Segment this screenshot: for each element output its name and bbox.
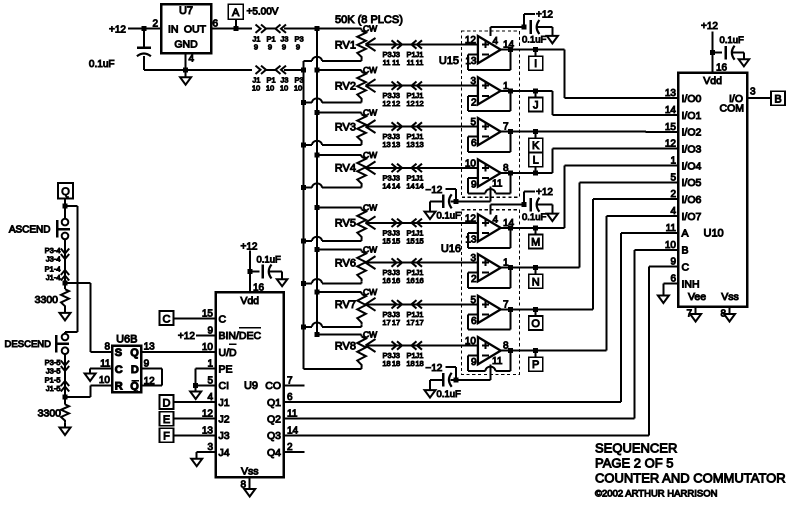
- label CW (RV5): [363, 203, 377, 213]
- label CW (RV8): [363, 330, 377, 340]
- wiper arrow RV4: [366, 161, 376, 174]
- pin 16 label (U10 Vdd): [716, 62, 728, 73]
- svg-text:18: 18: [382, 359, 390, 368]
- label IN: [168, 23, 179, 35]
- pin name J4: [219, 447, 230, 459]
- label Vdd (U10): [703, 75, 722, 87]
- svg-text:L: L: [533, 155, 539, 167]
- wire pin 4 to +12 rail: [490, 27, 492, 36]
- dashed box U16: [461, 210, 519, 375]
- svg-text:C: C: [682, 261, 690, 273]
- pin 11 label (U16 V-): [492, 356, 503, 367]
- label 0.1uF (U9): [257, 255, 281, 266]
- wiper arrow RV3: [366, 120, 376, 133]
- feedback wire U16a: [468, 228, 510, 248]
- pin label 9 (-in): [471, 357, 477, 368]
- label 0.1uF (U16): [522, 212, 546, 223]
- wire cap to ground (U16 V-): [430, 380, 443, 390]
- wire RV7 bottom to ground bus (hop over +5V bus): [303, 322, 361, 326]
- svg-text:PAGE 2 OF 5: PAGE 2 OF 5: [595, 456, 674, 471]
- labels J1 P1 J3 P3 row 10: [253, 76, 304, 85]
- ground (U10 INH): [658, 296, 669, 304]
- wire node D to U9 J1: [174, 401, 216, 403]
- pin number 11 (U10 A): [666, 223, 677, 234]
- labels P3 J3 P1 J1 ch4: [383, 173, 424, 182]
- pin 2 label (U9 Q4): [287, 442, 293, 453]
- pin 7 label (U9 CO): [287, 375, 293, 386]
- svg-text:PE: PE: [219, 364, 233, 376]
- pin label 14 (out): [503, 40, 515, 51]
- pin 4 label (U15 V+): [493, 36, 499, 47]
- wire RV2 wiper to buffer: [366, 85, 478, 87]
- junction output stub: [533, 265, 538, 270]
- potentiometer RV5 body: [357, 208, 366, 242]
- svg-text:C: C: [163, 313, 171, 325]
- connector chevrons P3-5/J3-5 (down): [61, 361, 69, 372]
- node L box: [529, 153, 543, 167]
- pin label 3 (+in): [470, 76, 476, 87]
- pin 8 label (U6B S): [104, 342, 110, 353]
- power label +12 (U7 input): [109, 24, 126, 35]
- junction output stub: [533, 88, 538, 93]
- power label +12 (U15): [536, 10, 553, 21]
- connector chevrons P1/J1 ch2 (left): [412, 82, 423, 90]
- pin label 13 (-in): [465, 234, 477, 245]
- wire node E to U9 J2: [174, 418, 216, 420]
- svg-text:RV2: RV2: [335, 81, 356, 93]
- pin label 1 (out): [503, 258, 509, 269]
- svg-text:3: 3: [470, 76, 476, 87]
- svg-text:0.1uF: 0.1uF: [437, 211, 461, 222]
- pin 4 label (U7 GND): [189, 54, 195, 65]
- svg-text:Vdd: Vdd: [703, 75, 722, 87]
- wire RV4 wiper to buffer: [366, 167, 478, 169]
- svg-text:12: 12: [406, 99, 414, 108]
- wire U10 cap to ground: [733, 53, 744, 60]
- wire RV8 bottom to ground bus: [303, 368, 361, 370]
- connector chevrons P3/J3 ch8 (right): [392, 341, 403, 349]
- dashed box U15: [461, 31, 519, 197]
- svg-text:C: C: [219, 314, 227, 326]
- connector chevrons P1/J1 ch1 (left): [412, 40, 423, 48]
- pin number 14 (U10 I/O1): [665, 105, 677, 116]
- svg-text:I/O3: I/O3: [682, 143, 702, 155]
- svg-text:Q: Q: [130, 347, 139, 359]
- junction feedback/output: [508, 225, 513, 230]
- svg-text:CW: CW: [363, 245, 377, 255]
- svg-text:Vee: Vee: [688, 291, 706, 303]
- svg-text:U6B: U6B: [116, 334, 137, 346]
- svg-text:+12: +12: [178, 331, 195, 342]
- svg-text:10: 10: [266, 84, 274, 93]
- junction ground bus RV2: [301, 100, 306, 105]
- svg-text:CW: CW: [363, 150, 377, 160]
- pin 11 label (U9 Q2): [287, 409, 298, 420]
- wire U9 Q4 stub: [284, 451, 305, 453]
- svg-text:DESCEND: DESCEND: [5, 339, 52, 350]
- pin 8 label (U9 Vss): [240, 480, 246, 491]
- labels P3 J3 P1 J1 ch5: [383, 228, 424, 237]
- potentiometer RV3 body: [357, 113, 366, 146]
- svg-text:12: 12: [665, 139, 677, 150]
- capacitor 0.1uF (U15 bypass): [531, 20, 540, 34]
- svg-text:M: M: [531, 237, 540, 249]
- svg-text:0.1uF: 0.1uF: [89, 59, 115, 70]
- wire net J to U10 I/O1: [536, 91, 678, 115]
- wiper arrow RV6: [366, 256, 376, 269]
- junction output stub: [533, 225, 538, 230]
- svg-text:4: 4: [670, 206, 676, 217]
- connector chevrons P3/J3 ch7 (right): [392, 300, 403, 308]
- svg-text:17: 17: [415, 318, 423, 327]
- feedback wire U15a: [468, 50, 510, 70]
- wire +5V bus vertical: [316, 29, 318, 335]
- svg-text:I/O2: I/O2: [682, 127, 702, 139]
- svg-text:3300: 3300: [35, 294, 59, 306]
- junction ground row / ground bus: [301, 67, 306, 72]
- svg-text:0.1uF: 0.1uF: [522, 212, 546, 223]
- op-amp U15 section d triangle: [478, 159, 501, 186]
- wire RV1 bottom to ground bus (hop over +5V bus): [303, 57, 361, 61]
- svg-text:0.1uF: 0.1uF: [522, 35, 546, 46]
- wire U9 cap stub: [250, 271, 259, 273]
- svg-text:COUNTER AND COMMUTATOR: COUNTER AND COMMUTATOR: [595, 471, 786, 486]
- pin label 10 (+in): [465, 336, 477, 347]
- label 0.1uF (U16 V-): [437, 389, 461, 400]
- ground (U15 bypass): [547, 36, 558, 44]
- pin name I/O0 (U10): [682, 93, 702, 105]
- svg-text:12: 12: [382, 99, 390, 108]
- pin 11 label (U6B C): [100, 358, 111, 369]
- svg-text:12: 12: [392, 99, 400, 108]
- wire RV3 bottom to ground bus (hop over +5V bus): [303, 141, 361, 145]
- label 3300 (descend): [38, 408, 62, 420]
- wire net K to U10 I/O2: [536, 131, 678, 133]
- wire -12 rail (U16): [451, 379, 491, 381]
- title PAGE 2 OF 5: [595, 456, 674, 471]
- wiper arrow RV2: [366, 79, 376, 92]
- wire K box stub: [535, 132, 537, 139]
- svg-text:11: 11: [383, 58, 391, 67]
- svg-text:Q1: Q1: [267, 397, 281, 409]
- ground (U9 PE/CI): [190, 392, 201, 400]
- ground (U7): [180, 77, 191, 85]
- junction PE/CI ground: [193, 383, 198, 388]
- svg-text:15: 15: [382, 236, 390, 245]
- svg-text:CI: CI: [219, 380, 230, 392]
- wire U10 Vee stub: [695, 307, 697, 314]
- pin name Q2: [267, 414, 281, 426]
- svg-text:©2002 ARTHUR HARRISON: ©2002 ARTHUR HARRISON: [595, 489, 718, 500]
- node E box: [160, 412, 174, 426]
- svg-text:0.1uF: 0.1uF: [257, 255, 281, 266]
- svg-text:C: C: [115, 364, 123, 376]
- svg-text:3: 3: [750, 87, 756, 98]
- label U16: [441, 243, 461, 255]
- op-amp U16 section a triangle: [478, 214, 501, 241]
- svg-text:2: 2: [152, 18, 158, 29]
- junction +5V bus top: [315, 26, 320, 31]
- wire output J segment: [501, 90, 536, 92]
- pin number 4 (U10 I/O7): [670, 206, 676, 217]
- svg-text:9: 9: [268, 43, 272, 52]
- power label +12 (U9): [241, 242, 258, 253]
- pin name B (U10): [682, 245, 689, 257]
- wire pin 11 to -12 rail: [489, 187, 491, 202]
- svg-text:CO: CO: [265, 380, 281, 392]
- feedback wire U15c: [468, 132, 510, 152]
- svg-text:SEQUENCER: SEQUENCER: [595, 441, 677, 456]
- svg-text:3: 3: [207, 442, 213, 453]
- pin label 12 (+in): [465, 35, 477, 46]
- svg-text:10: 10: [202, 342, 214, 353]
- svg-text:13: 13: [406, 140, 414, 149]
- wire U10 Vdd to +12: [712, 31, 714, 73]
- junction feedback/output: [508, 307, 513, 312]
- svg-text:U9: U9: [244, 380, 258, 392]
- junction +5V bus RV2: [315, 67, 320, 72]
- pin name J2: [219, 414, 230, 426]
- junction feedback/output: [508, 265, 513, 270]
- wire output P segment: [501, 350, 536, 352]
- svg-text:15: 15: [415, 236, 423, 245]
- svg-text:CW: CW: [363, 330, 377, 340]
- wire RV2 top feed: [317, 69, 362, 71]
- pin 4 label (U16 V+): [493, 214, 499, 225]
- label 3300 (ascend): [35, 294, 59, 306]
- node P box: [529, 357, 543, 371]
- pin label 9 (-in): [471, 180, 477, 191]
- label +5.00V: [247, 7, 279, 18]
- label 0.1uF (U10): [720, 35, 744, 46]
- feedback wire U16c: [468, 309, 510, 329]
- label CW (RV4): [363, 150, 377, 160]
- wire cap to ground (U16): [538, 205, 553, 214]
- wire RV1 wiper to buffer: [366, 44, 478, 46]
- pin name R: [115, 381, 123, 393]
- svg-text:F: F: [163, 431, 170, 443]
- wire Q node to descend branch: [65, 206, 77, 334]
- svg-text:GND: GND: [174, 39, 198, 51]
- svg-text:3300: 3300: [38, 408, 62, 420]
- svg-text:12: 12: [415, 99, 423, 108]
- labels 9 9 9 9: [254, 43, 300, 52]
- svg-text:9: 9: [254, 43, 258, 52]
- pin label 12 (+in): [465, 213, 477, 224]
- junction output stub: [533, 129, 538, 134]
- node N box: [529, 274, 543, 288]
- svg-text:5: 5: [670, 172, 676, 183]
- pin 3 label (U9 J4): [207, 442, 213, 453]
- pin 12 label (U9 J2): [202, 409, 214, 420]
- junction ground bus RV5: [301, 239, 306, 244]
- svg-text:Q: Q: [130, 381, 139, 393]
- pin name CI: [219, 380, 230, 392]
- svg-text:E: E: [163, 414, 170, 426]
- svg-text:B: B: [682, 245, 689, 257]
- connector chevrons P1/J1 ch3 (left): [412, 122, 423, 130]
- regulator U7 box: [161, 4, 211, 53]
- label GND: [174, 39, 198, 51]
- wire output I segment: [501, 49, 536, 51]
- op-amp U16 section d triangle: [478, 337, 501, 364]
- svg-text:6: 6: [213, 18, 219, 29]
- junction Q node: [63, 204, 68, 209]
- wire U6B D to Qbar loop: [141, 369, 162, 386]
- svg-text:4: 4: [493, 36, 499, 47]
- connector chevrons P3/J3 ch5 (right): [392, 219, 403, 227]
- wiper arrow RV1: [366, 38, 376, 51]
- node K box: [529, 138, 543, 152]
- labels P3-4 J3-4: [45, 246, 61, 264]
- label CW (RV7): [363, 287, 377, 297]
- pin number 2 (U10 I/O6): [670, 189, 676, 200]
- svg-text:1: 1: [670, 156, 676, 167]
- wire +12 to BIN/DEC: [196, 334, 216, 336]
- svg-text:IN: IN: [168, 23, 179, 35]
- wire ground row left segment: [186, 69, 276, 71]
- wire between chevrons row 9: [266, 28, 276, 30]
- junction node A stub: [233, 26, 238, 31]
- wire RV7 top feed: [317, 291, 362, 293]
- wire RV6 wiper to buffer: [366, 262, 478, 264]
- junction output stub: [533, 47, 538, 52]
- wire I box stub: [535, 50, 537, 57]
- wire U10 cap stub: [713, 52, 722, 54]
- pin 9 label (U9 BIN): [207, 325, 213, 336]
- pin label 1 (out): [503, 81, 509, 92]
- svg-text:+5.00V: +5.00V: [247, 7, 279, 18]
- label 50K (8 PLCS): [335, 14, 403, 26]
- ground (U6B C): [85, 374, 96, 382]
- op-amp U15 section b triangle: [478, 77, 501, 104]
- wire +5V row to bus: [284, 28, 317, 30]
- junction +12 rail (U15): [522, 25, 527, 30]
- svg-text:15: 15: [406, 236, 414, 245]
- label U6B: [116, 334, 137, 346]
- svg-text:J1-5: J1-5: [46, 384, 61, 393]
- node F box: [160, 428, 174, 442]
- ground (descend): [60, 428, 71, 436]
- junction on U7 input: [141, 26, 146, 31]
- svg-text:50K (8 PLCS): 50K (8 PLCS): [335, 14, 403, 26]
- wire 3300 to ground (descend): [64, 422, 66, 427]
- svg-text:I/O4: I/O4: [682, 160, 702, 172]
- node I box: [529, 56, 543, 70]
- svg-text:6: 6: [471, 138, 477, 149]
- svg-text:Q4: Q4: [267, 447, 281, 459]
- svg-text:14: 14: [382, 181, 390, 190]
- pin name I/O5 (U10): [682, 177, 702, 189]
- svg-text:CW: CW: [363, 108, 377, 118]
- pin name INH (U10): [682, 278, 700, 290]
- wire U9 CO stub: [284, 384, 305, 386]
- svg-text:ASCEND: ASCEND: [9, 224, 51, 235]
- junction +5V bus RV3: [315, 110, 320, 115]
- svg-text:−12: −12: [425, 185, 442, 196]
- svg-text:D: D: [163, 397, 171, 409]
- wire 3300 to ground (ascend): [64, 308, 66, 313]
- connector chevrons P1/J1 ch7 (left): [412, 300, 423, 308]
- label Vdd (U9): [240, 295, 259, 307]
- wire +12 rail (U15): [491, 26, 525, 28]
- svg-text:12: 12: [465, 35, 477, 46]
- connector chevrons J1/P1 pin 9 (right): [256, 25, 267, 33]
- label DESCEND: [5, 339, 52, 350]
- wire RV5 top feed: [317, 207, 362, 209]
- labels P1-5 J1-5: [45, 376, 61, 394]
- pin 16 label (U9 Vdd): [253, 283, 265, 294]
- svg-text:N: N: [532, 276, 540, 288]
- svg-text:K: K: [532, 140, 540, 152]
- junction feedback/output: [508, 129, 513, 134]
- svg-text:10: 10: [294, 84, 302, 93]
- pin 8 label (U10 Vss): [721, 309, 727, 320]
- svg-text:15: 15: [665, 122, 677, 133]
- connector chevrons P3/J3 ch2 (right): [392, 82, 403, 90]
- pin number 6 (U10 INH): [670, 273, 676, 284]
- pin 2 label (U7 IN): [152, 18, 158, 29]
- svg-text:9: 9: [471, 180, 477, 191]
- pin label 2 (-in): [471, 97, 477, 108]
- pin number 9 (U10 C): [670, 257, 676, 268]
- pin 6 label (U7 OUT): [213, 18, 219, 29]
- connector chevrons P1-5/J1-5 (up): [61, 381, 69, 392]
- pin 14 label (U9 Q3): [287, 425, 299, 436]
- ground (U16 V- bypass): [425, 390, 436, 398]
- wire -12 rail (U15): [451, 200, 491, 202]
- op-amp U16 section b triangle: [478, 254, 501, 281]
- wire RV6 top feed: [317, 249, 362, 251]
- title SEQUENCER: [595, 441, 677, 456]
- svg-text:U16: U16: [441, 243, 461, 255]
- connector chevrons P3/J3 ch3 (right): [392, 122, 403, 130]
- svg-text:Vss: Vss: [721, 291, 739, 303]
- ground (U9 J4): [191, 459, 202, 467]
- label CW (RV2): [363, 65, 377, 75]
- wire node A stub: [235, 19, 237, 29]
- labels P3-5 J3-5: [45, 358, 61, 376]
- pin label 6 (-in): [471, 316, 477, 327]
- connector chevrons P3/J3 ch1 (right): [392, 40, 403, 48]
- svg-text:Q2: Q2: [267, 414, 281, 426]
- pin name S: [115, 347, 122, 359]
- svg-text:16: 16: [406, 276, 414, 285]
- svg-text:Vdd: Vdd: [240, 295, 259, 307]
- connector chevrons J3/P3 pin 9 (left): [276, 25, 287, 33]
- wire -12 stub (U15): [446, 189, 457, 201]
- svg-text:18: 18: [415, 359, 423, 368]
- pin name C (U6B): [115, 364, 123, 376]
- pin number 13 (U10 I/O0): [665, 88, 677, 99]
- labels 14 x4: [382, 181, 423, 190]
- ground (U9 bypass): [277, 279, 288, 286]
- wire pin 4 to +12 rail: [490, 205, 492, 215]
- label U10: [704, 228, 724, 240]
- svg-text:Q: Q: [61, 186, 70, 198]
- svg-text:11: 11: [492, 179, 503, 190]
- labels 12 x4: [382, 99, 423, 108]
- wire U6B C to ground: [90, 369, 112, 374]
- wire RV8 top feed: [317, 334, 362, 336]
- pin number 5 (U10 I/O5): [670, 172, 676, 183]
- svg-text:+12: +12: [536, 10, 553, 21]
- junction U9 Vdd cap: [248, 269, 253, 274]
- svg-text:13: 13: [415, 140, 423, 149]
- wire J box stub: [535, 91, 537, 98]
- connector chevrons P1/J1 ch8 (left): [412, 341, 423, 349]
- wire RV8 wiper to buffer: [366, 345, 478, 347]
